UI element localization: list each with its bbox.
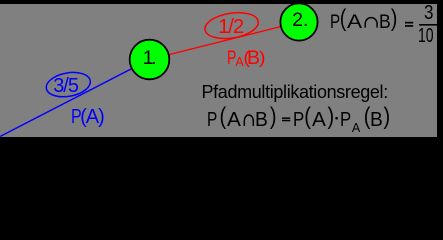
bottom formula ( of (B) [364,105,371,129]
node 1 (green circle) [130,40,170,80]
bottom formula ( of (A) [304,105,311,129]
red oval around 1/2 [203,9,260,42]
edge label PA(B): subscript A [235,56,243,69]
edge label P(A) [71,107,104,127]
wire: red branch line for event B [150,22,300,60]
bottom formula B of (B) [370,110,383,130]
bottom formula B [255,110,268,130]
node 2 label "2." [292,11,308,31]
top formula ) [391,7,398,31]
heading Pfadmultiplikationsregel: [202,83,388,101]
gray canvas background [0,4,437,137]
edge label PA(B): ( [243,50,250,68]
bottom formula ( [220,105,227,129]
node 1 label "1." [143,49,154,69]
bottom formula subscript A [352,122,360,135]
fraction bar 3/10 [419,24,438,26]
bottom formula ) of (B) [384,105,391,129]
bottom formula ) [270,105,277,129]
fraction denominator 10 [418,26,434,46]
bottom formula A [227,110,241,130]
top formula A [347,13,362,33]
node 2 (green circle) [280,3,317,40]
edge label PA(B): B [247,49,260,69]
edge label PA(B): letter P [227,49,236,69]
edge label PA(B): ) [259,50,266,68]
bottom formula P(A&cap;B) = P(A)&middot;PA(B) : letter P [207,110,217,130]
top formula ( [340,7,347,31]
multiplication dot of bottom formula [335,117,338,120]
intersection symbol of bottom formula [244,115,253,126]
probability label 3/5 [53,76,78,96]
fraction numerator 3 [424,3,433,23]
top formula B [379,13,391,33]
probability label 1/2 [218,17,243,37]
wire: blue branch line for event A [0,60,150,137]
bottom formula ) of (A) [328,105,335,129]
bottom formula second P [293,110,304,130]
equals sign of bottom formula [282,117,290,119]
equals sign of top formula [405,22,413,24]
blue oval around 3/5 [44,69,92,100]
top formula P(A&cap;B) = 3/10 : letter P [330,13,340,33]
bottom formula A of (A) [312,110,326,130]
bottom formula third P [340,110,351,130]
intersection symbol of top formula [365,18,377,28]
